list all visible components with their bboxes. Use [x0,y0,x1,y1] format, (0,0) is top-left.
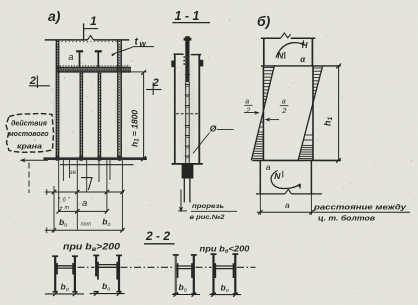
nut block under plate [182,164,194,179]
title 1-1 [173,9,211,23]
short extension verticals below bottom edge [54,159,122,233]
right stress diagram diagonal [298,66,323,160]
top edge of column head plate with break zigzag [45,36,130,42]
extension line of seam to h1 dimension with slash tick [131,70,147,75]
gusset plate bottom edge [252,159,341,161]
stud bolt row 1 inside head [76,51,83,67]
left edge of column (double riveted line) [56,40,58,158]
right stress diagram hatching (lower) [299,135,313,159]
vertical stiffener line at x81 below seam [80,72,82,158]
gusset plate top edge with slash tick [261,64,341,69]
left stress diagram hatching (upper) [263,68,274,110]
right edge of column (double riveted line) [118,40,121,158]
dimension line row 2 under view a [57,209,110,213]
left stress diagram diagonal [251,65,274,160]
I-section S4 (bv<200, right) [210,254,242,297]
splice band (riveted seam) across column [56,66,131,72]
tiny rotated marks beside left extension [58,196,71,212]
lower moment arc with letter N [271,171,301,190]
bottom dimension a between bolt groups [257,194,410,215]
paper grain overlay [0,0,1,1]
horizontal centre line of sections [78,266,256,268]
upper column stub of diagram b [261,33,315,66]
weld dots along bolt [183,56,185,65]
dimension line row 3 under view a [45,227,125,233]
title 2-2 [144,229,175,244]
second bottom line [60,164,134,166]
I-section S2 (bv>200, right) [90,255,125,295]
weld note underline [191,210,237,212]
bolt tail below nut [184,179,190,203]
vertical stiffener line at x99 below seam [98,72,100,158]
bolt diameter label with leader [193,124,234,154]
right weld nub [200,60,204,67]
section cut mark 2 (right) [146,77,162,95]
lower column stub of diagram b [256,160,322,194]
dimension line row 1 under view a [45,189,125,195]
vertical dimension h1 of plate [323,66,342,163]
section cut mark 1 (top) [83,14,98,40]
centre-line tick marks [185,75,190,158]
I-section S3 (bv<200, left) [172,255,200,297]
fraction a/2 outside left with arrow [244,99,260,115]
section cut mark 2 (left) [29,75,50,88]
left stress diagram hatching (lower) [252,122,264,158]
junction knots on bottom edge [56,156,122,161]
label tw with leader arrow to web [111,37,154,57]
fraction a/2 inside plate with arrow [265,97,289,122]
crane zone note cloud [6,114,54,153]
splice dashed line in section [176,113,199,115]
anchor bolt with head [184,36,192,163]
stud bolt row 2 inside head [95,51,102,67]
faint smudges [45,55,197,165]
hook mark 7 near bottom [81,178,92,190]
leader arrow to weld note [178,190,187,213]
left weld nub [171,61,174,68]
upper moment arc with letters N and H and alpha [276,39,308,64]
bottom thick edge of view a with slash tick [44,156,147,161]
right stress diagram hatching (upper) [313,68,322,100]
section 1-1 web plate outline [172,54,203,164]
gusset plate right edge [312,66,314,160]
vertical dimension h1=1800 with slash ticks [130,72,147,161]
gusset plate left edge [262,66,264,160]
I-section S1 (bv>200, left) [45,256,84,296]
leader arrow below cloud note [20,158,48,193]
